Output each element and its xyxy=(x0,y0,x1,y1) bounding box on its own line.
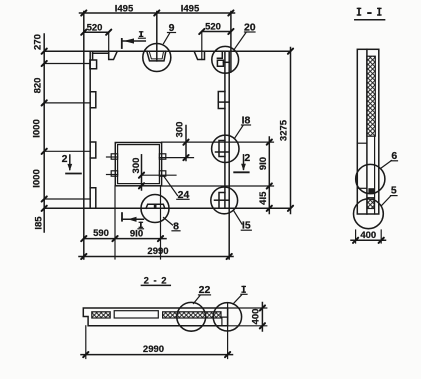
svg-text:I495: I495 xyxy=(115,4,134,15)
svg-text:400: 400 xyxy=(360,230,376,241)
svg-text:3275: 3275 xyxy=(278,119,289,141)
svg-text:270: 270 xyxy=(33,34,44,50)
svg-text:I85: I85 xyxy=(34,216,45,230)
svg-text:300: 300 xyxy=(175,122,186,138)
svg-text:590: 590 xyxy=(93,228,109,239)
svg-text:4I5: 4I5 xyxy=(258,191,269,205)
svg-text:2: 2 xyxy=(244,152,250,164)
svg-text:2: 2 xyxy=(62,153,68,165)
svg-text:I000: I000 xyxy=(31,119,42,138)
svg-text:I000: I000 xyxy=(31,169,42,188)
svg-text:520: 520 xyxy=(205,22,221,33)
svg-text:I5: I5 xyxy=(242,220,251,232)
svg-text:400: 400 xyxy=(250,309,261,325)
svg-text:9: 9 xyxy=(169,22,175,34)
svg-text:8: 8 xyxy=(173,220,179,232)
svg-text:5: 5 xyxy=(391,185,397,197)
svg-text:9I0: 9I0 xyxy=(130,229,143,240)
svg-text:20: 20 xyxy=(244,22,256,34)
svg-text:I495: I495 xyxy=(181,4,200,15)
svg-text:2990: 2990 xyxy=(147,246,168,257)
svg-text:300: 300 xyxy=(131,158,142,174)
svg-text:2 - 2: 2 - 2 xyxy=(144,276,168,287)
svg-text:520: 520 xyxy=(87,23,103,34)
svg-text:6: 6 xyxy=(391,150,397,162)
svg-text:22: 22 xyxy=(199,284,211,296)
svg-text:24: 24 xyxy=(178,189,190,201)
svg-text:2990: 2990 xyxy=(143,344,164,355)
svg-text:9I0: 9I0 xyxy=(258,157,269,170)
svg-text:I8: I8 xyxy=(242,115,251,127)
svg-text:820: 820 xyxy=(32,78,43,94)
